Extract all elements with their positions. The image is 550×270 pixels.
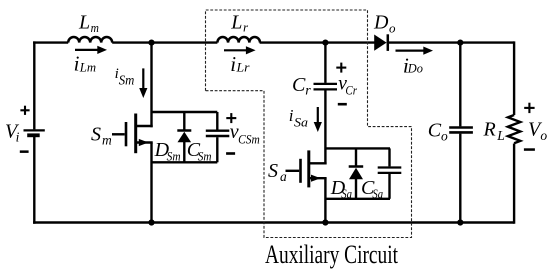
transistor Sm gate bar (125, 122, 128, 146)
svg-text:C: C (428, 120, 442, 142)
transistor Sa source lead with arrow (309, 175, 327, 182)
svg-text:o: o (540, 128, 547, 143)
label + of Vo (524, 103, 534, 113)
transistor Sm source lead with arrow (136, 139, 153, 146)
arrow iLm (75, 46, 107, 54)
inductor Lm (68, 37, 112, 43)
label iDo (403, 53, 423, 77)
node bottom of Co (457, 219, 463, 225)
svg-text:C: C (292, 74, 306, 96)
label minus of vCr (338, 103, 347, 106)
label CSa (361, 177, 384, 201)
svg-text:r: r (305, 83, 311, 98)
transistor Sa gate lead (286, 170, 300, 172)
svg-text:o: o (389, 20, 396, 35)
wire top rail right segment (389, 41, 514, 43)
wire left branch upper (33, 41, 35, 129)
svg-text:Sm: Sm (119, 72, 135, 87)
label iSa (289, 106, 309, 130)
dashed auxiliary circuit boundary (206, 10, 412, 238)
transistor Sa channel bar (307, 150, 310, 187)
label vCr (338, 74, 357, 98)
svg-text:S: S (268, 160, 278, 182)
wire top rail left segment (33, 41, 68, 43)
label + of vCr (336, 63, 346, 73)
wire source branch of Sa (324, 178, 326, 222)
svg-text:Sa: Sa (294, 115, 309, 130)
transistor Sm channel bar (134, 114, 137, 154)
wire Cr branch bottom (324, 91, 326, 165)
arrow iSm (139, 68, 147, 98)
wire top rail mid segment (112, 41, 217, 43)
label iLr (230, 52, 249, 76)
wire Cr branch top (324, 43, 326, 83)
label Do (373, 12, 396, 36)
node bottom of Sa (322, 219, 328, 225)
label Sa (268, 160, 287, 184)
wire drain branch of Sm (150, 43, 152, 128)
label minus of vCSm (226, 152, 235, 155)
label Co (428, 120, 448, 144)
label DSa (330, 177, 353, 201)
capacitor CSm (206, 112, 230, 162)
svg-text:Sa: Sa (341, 186, 352, 201)
svg-text:CSm: CSm (238, 133, 260, 147)
svg-text:o: o (441, 129, 448, 144)
node junction top of Co (457, 40, 463, 46)
resistor RL (508, 115, 520, 143)
arrow iLr (224, 46, 256, 54)
wire right branch lower (513, 144, 515, 224)
label Lm (78, 11, 99, 35)
svg-text:Lr: Lr (235, 61, 249, 75)
arrow iDo (396, 47, 434, 55)
capacitor Cr (314, 84, 338, 90)
svg-text:i: i (16, 129, 20, 144)
wire snubber Sa top (325, 147, 390, 149)
svg-text:R: R (483, 118, 496, 140)
wire left branch lower (33, 137, 35, 224)
battery Vi (24, 130, 45, 135)
wire right branch upper (513, 41, 515, 115)
wire bottom rail (33, 221, 514, 224)
capacitor CSa (378, 148, 402, 198)
label iLm (74, 52, 97, 76)
diode DSa (349, 148, 364, 198)
transistor Sm gate lead (112, 133, 125, 135)
label iSm (115, 66, 135, 87)
svg-text:Do: Do (407, 62, 423, 76)
svg-text:S: S (91, 123, 101, 145)
label Sm (91, 123, 112, 147)
svg-text:i: i (74, 52, 80, 76)
diode DSm (177, 112, 191, 162)
wire Co branch bottom (459, 134, 461, 223)
wire Co branch top (459, 43, 461, 127)
label minus of Vi (20, 150, 29, 153)
label Auxiliary Circuit (265, 240, 399, 269)
inductor Lr (217, 37, 260, 43)
svg-text:D: D (373, 12, 389, 34)
label Cr (292, 74, 311, 98)
label CSm (187, 139, 212, 163)
svg-text:r: r (243, 20, 249, 35)
svg-text:Cr: Cr (345, 83, 357, 97)
transistor Q Sm: drain lead (136, 125, 153, 127)
svg-text:L: L (78, 11, 90, 33)
wire source branch of Sm (150, 143, 152, 223)
label minus of Vo (524, 148, 535, 151)
wire snubber Sm bottom (152, 161, 218, 163)
label DSm (154, 139, 181, 163)
label + of Vi (20, 106, 29, 115)
node junction top of Sm (148, 40, 154, 46)
diode Do (374, 34, 388, 51)
wire top rail after Lr (260, 41, 375, 43)
svg-text:Sm: Sm (198, 148, 212, 163)
svg-text:L: L (230, 11, 242, 33)
svg-text:Sa: Sa (372, 186, 383, 201)
svg-text:i: i (230, 52, 236, 76)
wire snubber Sa bottom (325, 198, 390, 200)
svg-text:Auxiliary Circuit: Auxiliary Circuit (265, 240, 399, 269)
svg-text:a: a (280, 169, 287, 184)
label Vo (528, 118, 547, 143)
capacitor Co (449, 128, 473, 133)
svg-text:L: L (496, 128, 505, 143)
svg-text:m: m (91, 20, 99, 35)
arrow iSa (314, 107, 322, 132)
node junction top of Cr (322, 40, 328, 46)
transistor Sa gate bar (299, 159, 302, 183)
label vCSm (230, 121, 260, 147)
svg-text:m: m (102, 132, 112, 147)
svg-text:Sm: Sm (167, 148, 181, 163)
label Vi (5, 121, 20, 145)
label RL (483, 118, 505, 143)
label Lr (230, 11, 249, 34)
node bottom of Sm (148, 219, 154, 225)
transistor Sa drain lead (309, 162, 327, 164)
svg-text:Lm: Lm (79, 60, 96, 74)
wire snubber Sm top (152, 111, 218, 113)
label + of vCSm (226, 113, 236, 123)
